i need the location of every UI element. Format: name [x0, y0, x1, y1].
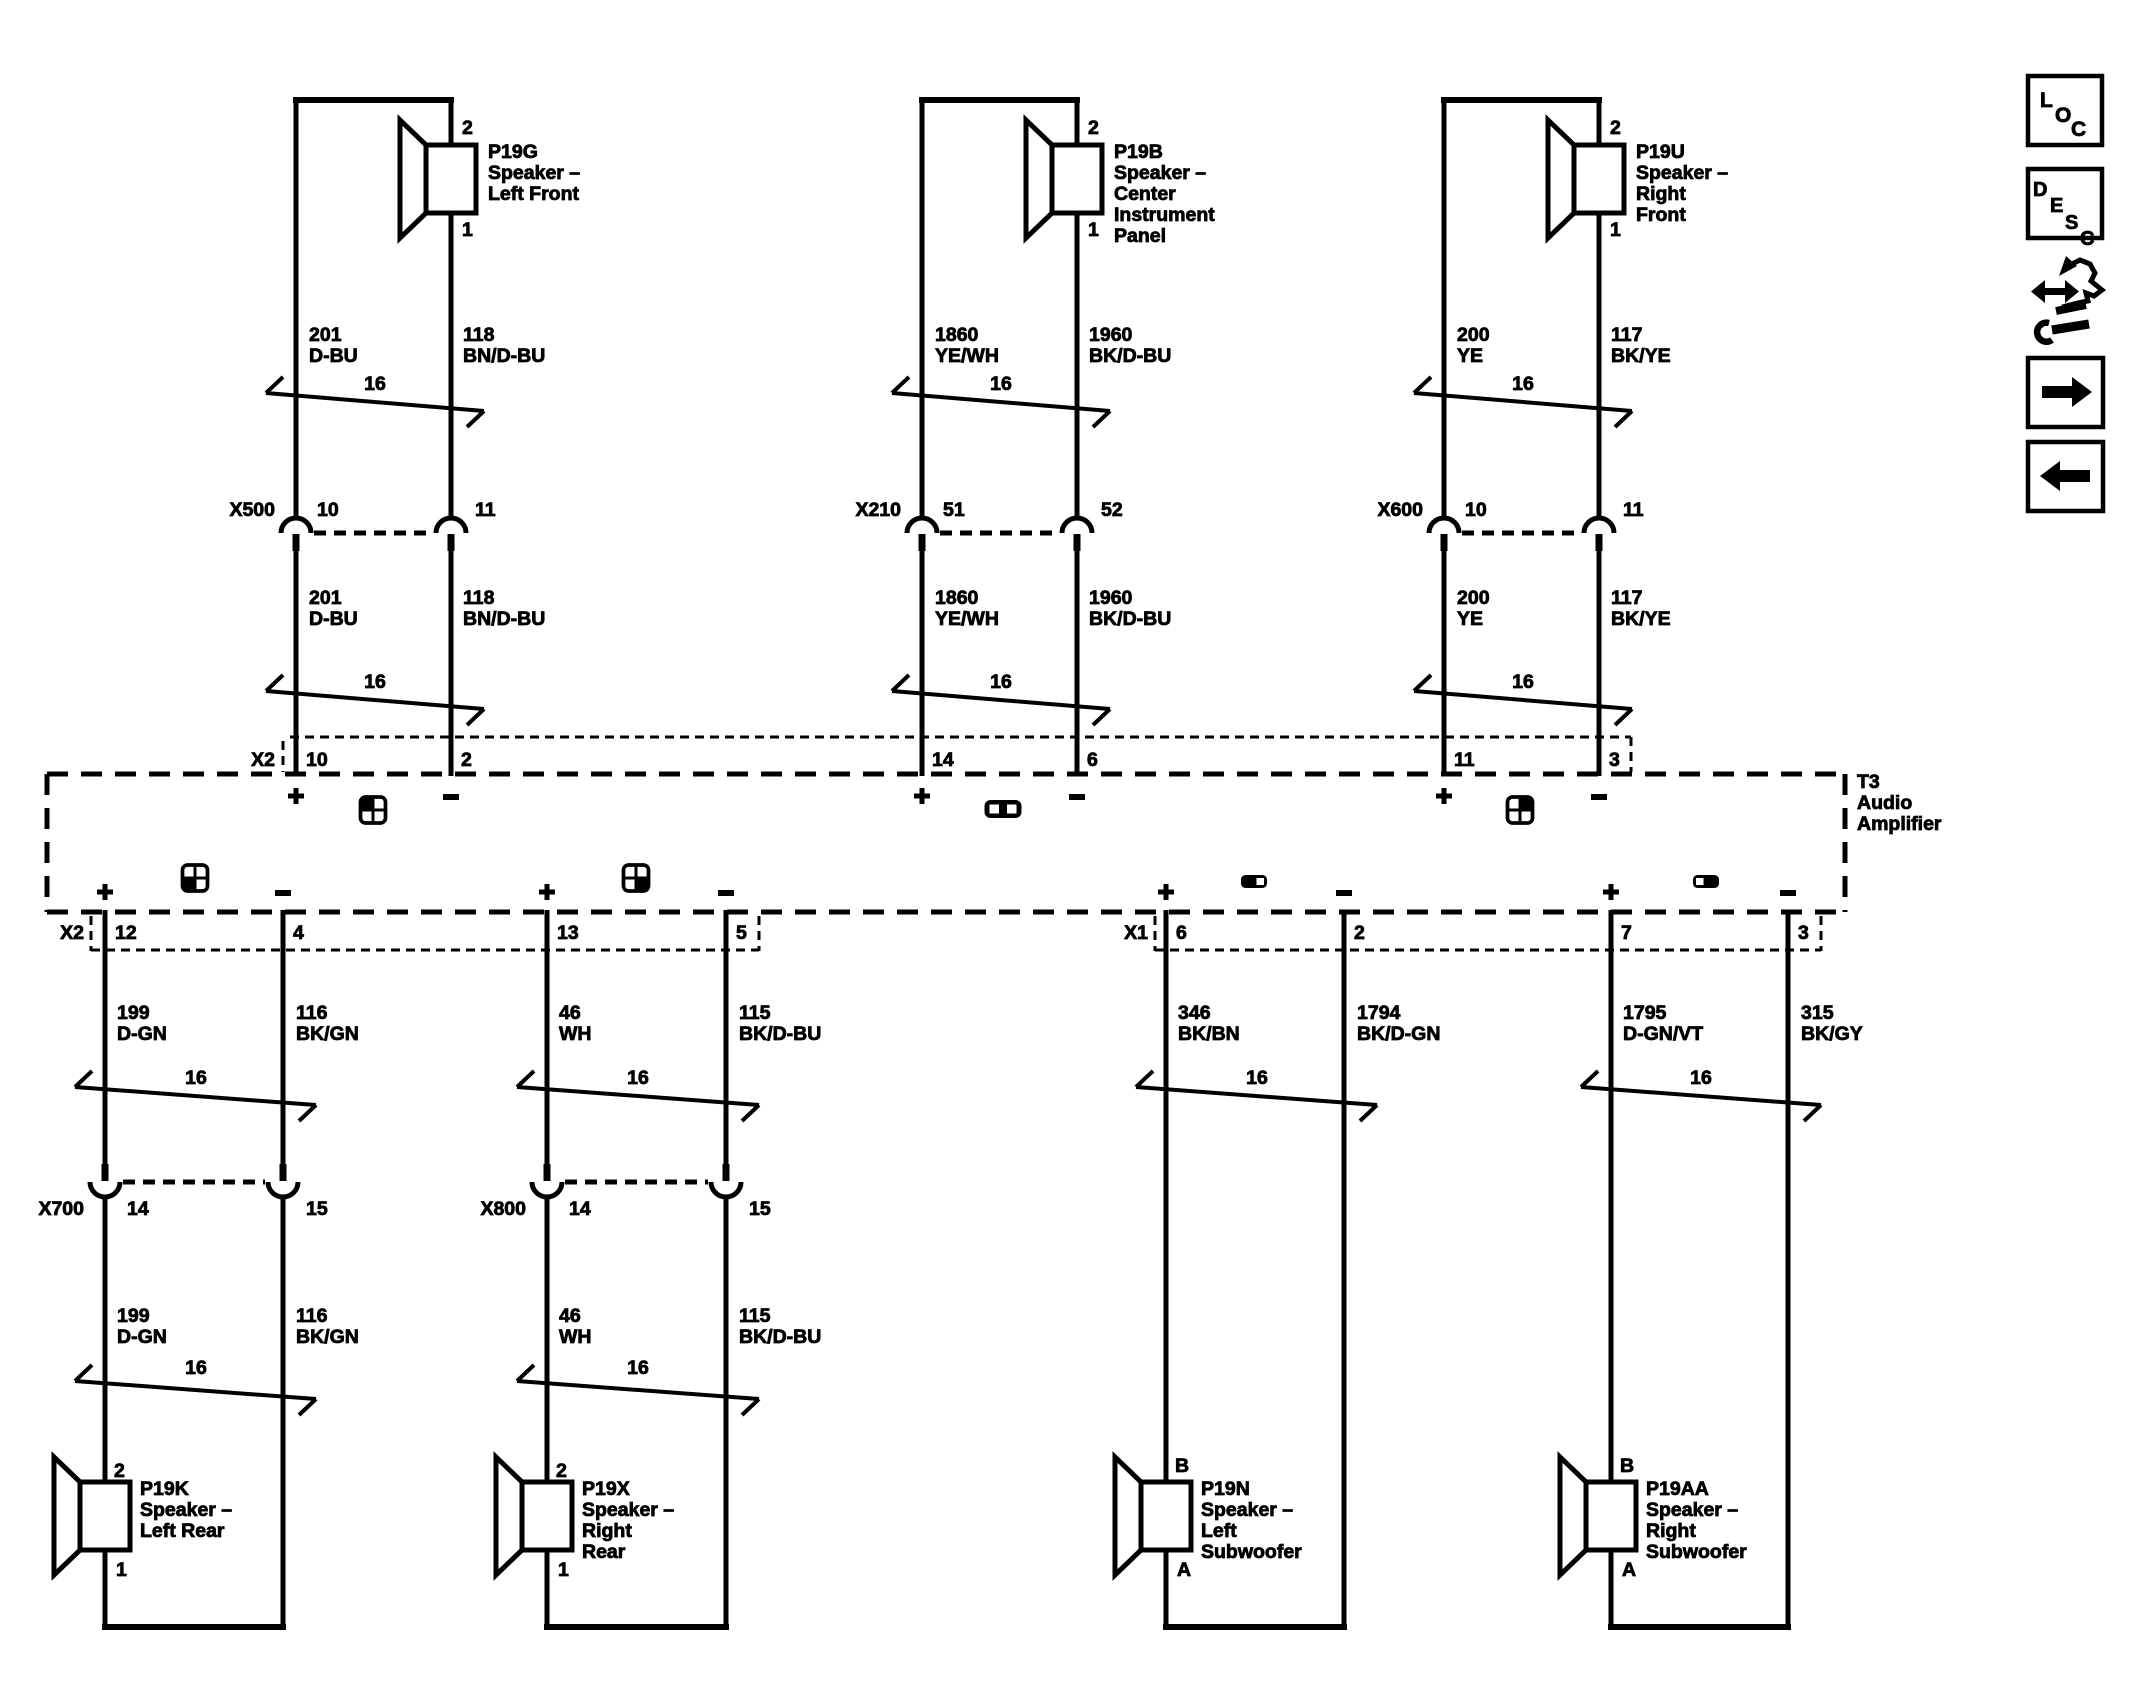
svg-text:X1: X1 [1124, 922, 1148, 944]
svg-text:16: 16 [1246, 1067, 1268, 1089]
svg-text:P19B: P19B [1114, 141, 1163, 163]
svg-text:Center: Center [1114, 183, 1176, 205]
icon right-front speaker position [1508, 797, 1533, 823]
svg-text:2: 2 [556, 1460, 567, 1482]
svg-text:1795: 1795 [1623, 1002, 1667, 1024]
svg-text:2: 2 [1610, 117, 1621, 139]
wire left (+) [1609, 910, 1614, 1483]
amplifier output - (right front) [1591, 794, 1607, 800]
svg-text:X2: X2 [251, 749, 275, 771]
svg-text:16: 16 [185, 1357, 207, 1379]
svg-text:201: 201 [309, 324, 342, 346]
amplifier output + (center) [914, 794, 930, 799]
svg-text:46: 46 [559, 1002, 581, 1024]
svg-text:C: C [2080, 228, 2094, 250]
svg-text:YE/WH: YE/WH [935, 345, 999, 367]
svg-text:X600: X600 [1377, 499, 1423, 521]
amplifier output - (left rear) [275, 890, 291, 896]
svg-text:199: 199 [117, 1305, 150, 1327]
speaker symbol P19B Speaker Center Instrument Panel [1026, 120, 1102, 238]
svg-text:BN/D-BU: BN/D-BU [463, 608, 545, 630]
icon box DESC [2028, 169, 2102, 250]
svg-text:D-BU: D-BU [309, 608, 358, 630]
svg-text:16: 16 [990, 671, 1012, 693]
svg-text:14: 14 [127, 1198, 149, 1220]
svg-text:1: 1 [462, 219, 473, 241]
svg-text:BK/BN: BK/BN [1178, 1023, 1240, 1045]
svg-text:2: 2 [462, 117, 473, 139]
svg-text:52: 52 [1101, 499, 1123, 521]
svg-text:D-GN: D-GN [117, 1023, 167, 1045]
icon box arrow left [2028, 442, 2103, 511]
svg-text:YE: YE [1457, 345, 1483, 367]
svg-text:BK/YE: BK/YE [1611, 608, 1671, 630]
inline connector X210 [855, 499, 1122, 551]
svg-text:3: 3 [1609, 749, 1620, 771]
wire top loop [1441, 97, 1602, 103]
harness size marker 16 [892, 373, 1110, 427]
svg-text:X210: X210 [855, 499, 901, 521]
svg-text:Subwoofer: Subwoofer [1646, 1541, 1747, 1563]
wire bottom loop [1608, 1624, 1791, 1630]
svg-text:P19AA: P19AA [1646, 1478, 1709, 1500]
svg-text:4: 4 [293, 922, 304, 944]
svg-text:P19U: P19U [1636, 141, 1685, 163]
svg-text:Right: Right [1646, 1520, 1696, 1542]
harness size marker 16 [1414, 671, 1632, 725]
label T3 Audio Amplifier [1857, 771, 1942, 835]
svg-text:P19K: P19K [140, 1478, 189, 1500]
svg-text:115: 115 [739, 1305, 771, 1327]
svg-text:10: 10 [317, 499, 339, 521]
svg-text:T3: T3 [1857, 771, 1880, 793]
speaker symbol P19X Speaker Right Rear [496, 1457, 572, 1575]
svg-text:D-BU: D-BU [309, 345, 358, 367]
svg-text:A: A [1177, 1559, 1191, 1581]
amplifier output + (left front) [288, 794, 304, 799]
svg-text:BK/D-BU: BK/D-BU [1089, 345, 1171, 367]
svg-text:13: 13 [557, 922, 579, 944]
svg-text:199: 199 [117, 1002, 150, 1024]
speaker symbol P19AA Speaker Right Subwoofer [1560, 1457, 1636, 1575]
svg-text:A: A [1622, 1559, 1636, 1581]
svg-text:16: 16 [990, 373, 1012, 395]
icon left-subwoofer position [1241, 875, 1267, 888]
svg-text:2: 2 [114, 1460, 125, 1482]
svg-text:Audio: Audio [1857, 792, 1912, 814]
speaker symbol P19K Speaker Left Rear [54, 1457, 130, 1575]
svg-text:Subwoofer: Subwoofer [1201, 1541, 1302, 1563]
amplifier output - (left subwoofer) [1336, 890, 1352, 896]
wire right (-) [281, 910, 286, 1164]
svg-text:1: 1 [1088, 219, 1099, 241]
svg-text:Speaker –: Speaker – [582, 1499, 674, 1521]
svg-text:1: 1 [558, 1559, 569, 1581]
svg-text:46: 46 [559, 1305, 581, 1327]
svg-text:BK/D-BU: BK/D-BU [739, 1023, 821, 1045]
svg-text:WH: WH [559, 1326, 592, 1348]
svg-text:X700: X700 [38, 1198, 84, 1220]
svg-text:P19X: P19X [582, 1478, 630, 1500]
svg-text:51: 51 [943, 499, 965, 521]
circuit P19AA Speaker Right Subwoofer [1560, 910, 1863, 1630]
inline connector X700 [38, 1164, 327, 1220]
audio amplifier T3 box [47, 774, 1845, 912]
svg-text:L: L [2040, 89, 2053, 112]
svg-text:1: 1 [116, 1559, 127, 1581]
svg-text:11: 11 [475, 499, 496, 521]
harness size marker 16 [75, 1357, 316, 1415]
amplifier output - (right rear) [718, 890, 734, 896]
connector X2 pin row (amplifier top) [251, 737, 1631, 772]
svg-text:BK/GN: BK/GN [296, 1023, 359, 1045]
inline connector X600 [1377, 499, 1643, 551]
svg-text:D-GN/VT: D-GN/VT [1623, 1023, 1703, 1045]
svg-text:346: 346 [1178, 1002, 1211, 1024]
svg-text:1: 1 [1610, 219, 1621, 241]
svg-text:5: 5 [736, 922, 747, 944]
svg-text:Instrument: Instrument [1114, 204, 1215, 226]
svg-text:116: 116 [296, 1002, 328, 1024]
svg-text:P19N: P19N [1201, 1478, 1250, 1500]
svg-text:Right: Right [582, 1520, 632, 1542]
svg-text:11: 11 [1454, 749, 1475, 771]
amplifier output - (left front) [443, 794, 459, 800]
icon right-subwoofer position [1693, 875, 1719, 888]
svg-text:X500: X500 [229, 499, 275, 521]
svg-text:2: 2 [1354, 922, 1365, 944]
svg-text:BK/D-BU: BK/D-BU [1089, 608, 1171, 630]
svg-text:6: 6 [1087, 749, 1098, 771]
svg-text:1860: 1860 [935, 324, 979, 346]
speaker symbol P19N Speaker Left Subwoofer [1115, 1457, 1191, 1575]
svg-text:S: S [2065, 212, 2078, 234]
wire left (+) [920, 97, 925, 518]
svg-text:P19G: P19G [488, 141, 538, 163]
svg-text:Speaker –: Speaker – [140, 1499, 232, 1521]
svg-text:11: 11 [1623, 499, 1644, 521]
svg-text:X800: X800 [480, 1198, 526, 1220]
wire right (-) [449, 97, 454, 147]
wire top loop [919, 97, 1080, 103]
wire right (-) [1075, 97, 1080, 147]
amplifier output + (right subwoofer) [1603, 890, 1619, 895]
svg-text:201: 201 [309, 587, 342, 609]
svg-text:BK/GN: BK/GN [296, 1326, 359, 1348]
svg-text:Left Front: Left Front [488, 183, 579, 205]
svg-text:16: 16 [627, 1357, 649, 1379]
svg-text:16: 16 [627, 1067, 649, 1089]
svg-text:C: C [2071, 118, 2086, 141]
svg-text:117: 117 [1611, 324, 1642, 346]
inline connector X500 [229, 499, 495, 551]
svg-text:10: 10 [1465, 499, 1487, 521]
wire right (-) [1342, 910, 1347, 1630]
circuit P19U Speaker Right Front [1377, 97, 1728, 776]
svg-text:2: 2 [461, 749, 472, 771]
svg-text:YE/WH: YE/WH [935, 608, 999, 630]
harness size marker 16 [892, 671, 1110, 725]
svg-text:10: 10 [306, 749, 328, 771]
svg-text:Speaker –: Speaker – [488, 162, 580, 184]
amplifier output - (center) [1069, 794, 1085, 800]
svg-text:15: 15 [306, 1198, 328, 1220]
amplifier output - (right subwoofer) [1780, 890, 1796, 896]
svg-text:X2: X2 [60, 922, 84, 944]
wire right (-) [724, 910, 729, 1164]
wire bottom loop [544, 1624, 729, 1630]
wire right (-) [1597, 97, 1602, 147]
circuit P19X Speaker Right Rear [480, 910, 821, 1630]
svg-text:118: 118 [463, 587, 495, 609]
svg-text:E: E [2050, 195, 2063, 217]
svg-text:Front: Front [1636, 204, 1686, 226]
svg-text:1960: 1960 [1089, 324, 1133, 346]
circuit P19N Speaker Left Subwoofer [1115, 910, 1440, 1630]
svg-text:16: 16 [364, 373, 386, 395]
svg-text:D: D [2033, 179, 2047, 201]
svg-text:O: O [2055, 104, 2071, 127]
svg-text:1960: 1960 [1089, 587, 1133, 609]
wire top loop [293, 97, 454, 103]
svg-text:200: 200 [1457, 587, 1490, 609]
svg-text:118: 118 [463, 324, 495, 346]
svg-text:117: 117 [1611, 587, 1642, 609]
svg-text:115: 115 [739, 1002, 771, 1024]
wire left (+) [1164, 910, 1169, 1483]
svg-text:Panel: Panel [1114, 225, 1166, 247]
icon left-front speaker position [361, 797, 386, 823]
amplifier output + (right rear) [539, 890, 555, 895]
icon route/tools [2031, 256, 2102, 342]
svg-text:BK/D-GN: BK/D-GN [1357, 1023, 1440, 1045]
svg-text:Left Rear: Left Rear [140, 1520, 225, 1542]
wire bottom loop [102, 1624, 286, 1630]
icon right-rear speaker position [624, 865, 649, 891]
svg-text:200: 200 [1457, 324, 1490, 346]
amplifier output + (left subwoofer) [1158, 890, 1174, 895]
icon box arrow right [2028, 358, 2103, 427]
wire right (-) [1786, 910, 1791, 1630]
svg-text:D-GN: D-GN [117, 1326, 167, 1348]
wire left (+) [545, 910, 550, 1164]
connector X2 pin row (amplifier bottom left) [60, 916, 759, 951]
harness size marker 16 [1414, 373, 1632, 427]
svg-text:315: 315 [1801, 1002, 1834, 1024]
svg-text:BK/GY: BK/GY [1801, 1023, 1863, 1045]
amplifier output + (left rear) [97, 890, 113, 895]
circuit P19K Speaker Left Rear [38, 910, 358, 1630]
wire left (+) [294, 97, 299, 518]
svg-text:B: B [1620, 1455, 1634, 1477]
circuit P19G Speaker Left Front [229, 97, 580, 776]
svg-text:Rear: Rear [582, 1541, 626, 1563]
svg-text:16: 16 [1512, 671, 1534, 693]
svg-text:BK/D-BU: BK/D-BU [739, 1326, 821, 1348]
wire bottom loop [1163, 1624, 1347, 1630]
svg-text:15: 15 [749, 1198, 771, 1220]
svg-text:WH: WH [559, 1023, 592, 1045]
svg-text:7: 7 [1621, 922, 1632, 944]
harness size marker 16 [1136, 1067, 1377, 1121]
svg-text:Speaker –: Speaker – [1646, 1499, 1738, 1521]
svg-text:Right: Right [1636, 183, 1686, 205]
svg-text:2: 2 [1088, 117, 1099, 139]
svg-text:6: 6 [1176, 922, 1187, 944]
svg-text:Speaker –: Speaker – [1636, 162, 1728, 184]
svg-text:12: 12 [115, 922, 137, 944]
speaker symbol P19U Speaker Right Front [1548, 120, 1624, 238]
svg-text:16: 16 [1690, 1067, 1712, 1089]
svg-text:Speaker –: Speaker – [1201, 1499, 1293, 1521]
connector X1 pin row (amplifier bottom right) [1124, 916, 1821, 951]
inline connector X800 [480, 1164, 770, 1220]
svg-text:BN/D-BU: BN/D-BU [463, 345, 545, 367]
amplifier output + (right front) [1436, 794, 1452, 799]
svg-text:3: 3 [1798, 922, 1809, 944]
harness size marker 16 [517, 1067, 759, 1121]
svg-text:Amplifier: Amplifier [1857, 813, 1942, 835]
svg-text:14: 14 [569, 1198, 591, 1220]
svg-text:16: 16 [364, 671, 386, 693]
icon center speaker position [985, 800, 1022, 818]
svg-text:116: 116 [296, 1305, 328, 1327]
harness size marker 16 [266, 671, 484, 725]
speaker symbol P19G Speaker Left Front [400, 120, 476, 238]
icon box LOC [2028, 76, 2102, 145]
wire left (+) [103, 910, 108, 1164]
icon left-rear speaker position [183, 865, 208, 891]
harness size marker 16 [75, 1067, 316, 1121]
svg-text:1794: 1794 [1357, 1002, 1401, 1024]
svg-text:YE: YE [1457, 608, 1483, 630]
harness size marker 16 [1581, 1067, 1821, 1121]
harness size marker 16 [266, 373, 484, 427]
svg-text:BK/YE: BK/YE [1611, 345, 1671, 367]
svg-text:16: 16 [1512, 373, 1534, 395]
svg-text:14: 14 [932, 749, 954, 771]
svg-text:B: B [1175, 1455, 1189, 1477]
harness size marker 16 [517, 1357, 759, 1415]
wire left (+) [1442, 97, 1447, 518]
svg-text:1860: 1860 [935, 587, 979, 609]
svg-text:Left: Left [1201, 1520, 1237, 1542]
svg-text:16: 16 [185, 1067, 207, 1089]
svg-text:Speaker –: Speaker – [1114, 162, 1206, 184]
circuit P19B Speaker Center Instrument Panel [855, 97, 1215, 776]
